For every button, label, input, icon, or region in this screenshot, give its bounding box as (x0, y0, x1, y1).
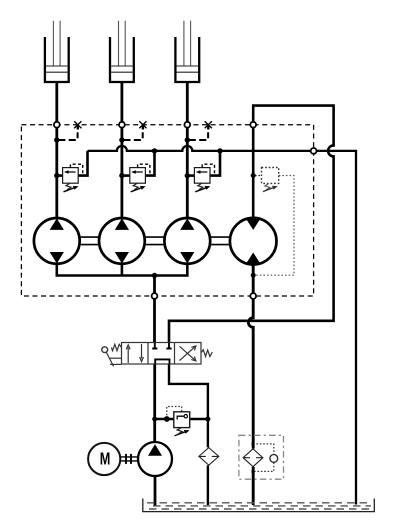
junction node V2 left port (119, 173, 124, 178)
boundary port circle cyl1 (54, 122, 60, 128)
cylinder CYL1 (45, 21, 69, 82)
return filter F1 (199, 448, 219, 466)
shaft coupling pump3-pump4 (210, 237, 230, 245)
junction node cyl3 pilot (185, 137, 190, 142)
boundary port circle drain bus (311, 148, 317, 154)
suction filter F2 with bypass, dash-dot enclosure (239, 435, 284, 479)
junction node cyl1 pilot (54, 137, 59, 142)
junction node V1 left port (54, 173, 59, 178)
junction node RV1 right (205, 417, 210, 422)
test point plug symbol 3 (205, 121, 212, 129)
wire directional valve A port down to main pump (153, 364, 156, 443)
wire pump4 suction line down to tank through filter (hop over x-line) (248, 264, 253, 505)
wire cylinder2 feed line (121, 83, 124, 219)
shaft coupling pump1-pump2 (80, 237, 99, 245)
wire pump4 pressure line up and over right side down to valve P port (169, 106, 334, 343)
wire pump group outlet collector (57, 262, 188, 276)
pilot stub dashed L at node 3 (189, 132, 208, 140)
compensator valve V2 (122, 151, 155, 192)
junction node V2 riser on bus (152, 148, 157, 153)
shaft coupling pump2-pump3 (145, 237, 164, 245)
wire collector drop to directional valve (153, 276, 156, 343)
test point plug symbol 1 (74, 121, 81, 129)
DV1 right return spring (201, 350, 212, 357)
junction node V3 riser on bus (217, 148, 222, 153)
boundary port circle cyl3 (184, 122, 190, 128)
directional control valve DV1 (3-position, lever operated) (122, 343, 202, 365)
junction node V4 tap (251, 173, 256, 178)
pump P3 (164, 218, 210, 264)
wire reducing valve left connection (155, 418, 174, 421)
boundary port circle pump4 line (250, 122, 256, 128)
main pump P5 (138, 442, 172, 476)
boundary port circle cyl2 (119, 122, 125, 128)
boundary port circle pump4 suction (250, 293, 256, 299)
pump P1 (34, 218, 80, 264)
wire directional valve T port to return filter (169, 364, 208, 505)
junction node V4 return tap (251, 273, 256, 278)
motor/pump P4 (triangles inward) (230, 218, 277, 265)
DV1 left box parallel arrows (126, 344, 143, 363)
DV1 right box crossed arrows (180, 346, 196, 361)
electric motor M1 (88, 443, 120, 475)
cylinder CYL3 (175, 21, 199, 82)
junction node RV1 left (152, 417, 157, 422)
compensator valve V3 (187, 151, 220, 192)
wire reducing valve right connection (190, 418, 208, 421)
boundary port circle collector drop (152, 293, 158, 299)
tank reservoir (143, 499, 374, 512)
wire main pump suction to tank (154, 475, 157, 506)
dashed enclosure box (pump group) (21, 125, 313, 296)
shaft coupling motor-pump (120, 454, 138, 464)
DV1 left return spring (111, 344, 121, 350)
wire cylinder1 feed line (55, 83, 58, 219)
pressure reducing valve RV1 (167, 407, 190, 436)
test point plug symbol 2 (139, 121, 146, 129)
ghost compensator valve V4 (dotted, future option) (255, 168, 294, 276)
junction node RV1 pilot tap (164, 416, 170, 422)
compensator valve V1 (57, 151, 88, 192)
junction node V3 left port (185, 173, 190, 178)
wire drain bus from relief valves to tank (88, 146, 357, 505)
DV1 centre box blocked ports and bottom gallery (152, 343, 171, 364)
junction node cyl2 pilot (119, 137, 124, 142)
wire cylinder3 feed line (186, 83, 189, 219)
junction node collector drop (152, 273, 157, 278)
pump P2 (99, 218, 145, 264)
pilot stub dashed L at node 1 (59, 132, 78, 140)
DV1 manual lever (102, 347, 122, 366)
cylinder CYL2 (110, 21, 134, 82)
pilot stub dashed L at node 2 (124, 132, 143, 140)
svg-text:M: M (100, 448, 111, 468)
